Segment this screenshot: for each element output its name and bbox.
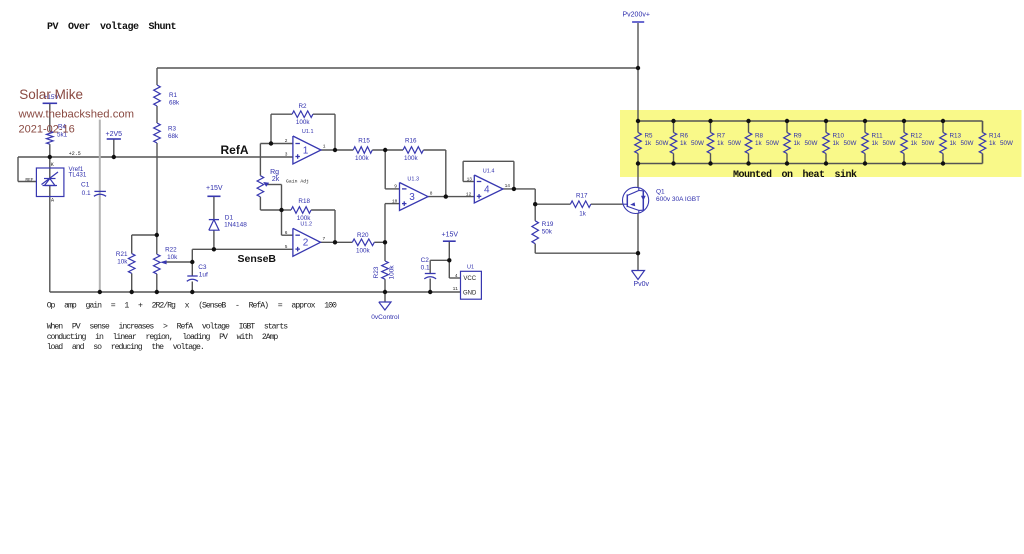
junction U1.4 output <box>512 187 516 191</box>
svg-text:1k: 1k <box>872 140 880 147</box>
resistor R10 1k 50W <box>823 133 830 154</box>
wire +15V stub to U1 VCC node <box>448 241 450 260</box>
wire R21 R22 top link <box>132 234 157 236</box>
svg-text:13: 13 <box>467 177 473 183</box>
wire R14 top lead <box>982 121 984 133</box>
wire U1.2 output to R20 <box>321 241 353 243</box>
op-amp U1.1 <box>293 136 321 164</box>
junction R17 R19 <box>533 202 537 206</box>
wire R10 bottom lead <box>825 154 827 164</box>
wire C2 top lead <box>429 260 431 273</box>
svg-text:100k: 100k <box>404 155 419 162</box>
svg-text:Op amp gain = 1 + 2R2/Rg x (Se: Op amp gain = 1 + 2R2/Rg x (SenseB - Ref… <box>47 301 337 311</box>
resistor R9 1k 50W <box>784 133 791 154</box>
junction R11 top <box>863 119 867 123</box>
svg-text:68k: 68k <box>169 100 180 107</box>
junction R10 bottom <box>824 161 828 165</box>
svg-text:R19: R19 <box>542 221 554 228</box>
svg-text:Pv0v: Pv0v <box>634 281 650 288</box>
wire main vertical PV bus upper <box>637 68 639 121</box>
resistor R15 100k <box>353 147 372 154</box>
svg-text:2: 2 <box>285 138 288 144</box>
capacitor C1 0.1 <box>94 190 106 192</box>
svg-text:0.1: 0.1 <box>82 190 91 197</box>
wire R4 bottom to RefA <box>49 144 51 157</box>
wire D1 anode to SenseB <box>213 230 215 249</box>
junction U1.1 output <box>333 148 337 152</box>
junction R12 top <box>902 119 906 123</box>
svg-text:100k: 100k <box>355 155 370 162</box>
svg-text:R3: R3 <box>168 126 177 133</box>
svg-text:10k: 10k <box>167 254 178 261</box>
power +2V5 <box>107 138 121 140</box>
wire SenseB horizontal <box>192 248 293 250</box>
wire R14 top lead <box>982 121 984 133</box>
wire R12 bottom lead <box>903 154 905 164</box>
svg-text:1uf: 1uf <box>199 272 208 279</box>
svg-text:R5: R5 <box>645 133 654 140</box>
junction R6 bottom <box>671 161 675 165</box>
wire U1.4 feedback stub <box>463 181 474 183</box>
svg-text:Mounted on heat sink: Mounted on heat sink <box>733 169 857 181</box>
svg-text:R7: R7 <box>717 133 726 140</box>
line C1 graphic vertical light gray <box>99 120 101 292</box>
svg-text:50W: 50W <box>1000 140 1013 147</box>
wire R2 left lead horizontal <box>271 113 292 115</box>
resistor R20 100k <box>352 239 374 246</box>
wire +2V5 stub <box>113 139 115 157</box>
svg-text:1k: 1k <box>989 140 997 147</box>
wire yellow bank bottom rail <box>638 163 983 165</box>
svg-text:VCC: VCC <box>463 276 476 282</box>
power +15V for U1 <box>443 240 456 242</box>
resistor R2 100k <box>292 111 313 118</box>
wire U1.4 feedback right vertical <box>513 161 515 189</box>
component U1 power box <box>461 271 482 299</box>
svg-text:+2V5: +2V5 <box>106 131 123 138</box>
wire R18 right lead <box>311 209 335 211</box>
svg-text:R17: R17 <box>576 192 588 199</box>
wire U1.3 inverting input horizontal <box>385 188 399 190</box>
junction R22 bottom <box>155 290 159 294</box>
svg-text:1: 1 <box>323 144 326 150</box>
wire bottom 0v rail <box>50 291 461 293</box>
svg-text:R2: R2 <box>299 103 308 110</box>
resistor R6 1k 50W <box>670 133 677 154</box>
resistor R3 68k <box>154 123 161 143</box>
wire U1.1 inverting input horizontal <box>260 143 293 145</box>
svg-text:50k: 50k <box>542 229 553 236</box>
svg-text:load and so reducing the volta: load and so reducing the voltage. <box>47 342 204 352</box>
svg-text:8: 8 <box>430 191 433 197</box>
svg-text:100k: 100k <box>389 265 396 280</box>
svg-text:50W: 50W <box>961 140 974 147</box>
resistor R18 100k <box>291 207 311 214</box>
svg-text:Pv200v+: Pv200v+ <box>623 12 650 19</box>
svg-text:REF: REF <box>25 177 33 183</box>
junction R21 R22 <box>155 233 159 237</box>
junction R13 bottom <box>941 161 945 165</box>
wire R5 top lead <box>637 121 639 133</box>
power +15V for D1 <box>207 195 220 197</box>
resistor R12 1k 50W <box>901 133 908 154</box>
component Vref1 TL431 <box>36 168 64 197</box>
wire U1.3 output <box>428 196 446 198</box>
svg-text:50W: 50W <box>691 140 704 147</box>
svg-text:When PV sense increases > RefA: When PV sense increases > RefA voltage I… <box>47 321 289 331</box>
junction R23 bottom <box>383 290 387 294</box>
wire R8 top lead <box>748 121 750 133</box>
wire R13 bottom lead <box>942 154 944 164</box>
svg-text:R21: R21 <box>116 251 128 258</box>
wire R21 top lead <box>131 235 133 254</box>
svg-text:RefA: RefA <box>221 143 249 157</box>
ground 0vControl <box>379 302 391 310</box>
junction R8 top <box>746 119 750 123</box>
wire R6 bottom lead <box>673 154 675 164</box>
junction R6 top <box>671 119 675 123</box>
resistor R4 5k1 <box>47 131 54 144</box>
junction Rg R18 <box>279 208 283 212</box>
resistor R11 1k 50W <box>862 133 869 154</box>
svg-text:5: 5 <box>285 244 288 250</box>
svg-text:A: A <box>51 197 54 203</box>
wire U1.4 output horizontal <box>503 188 535 190</box>
wire R3 bottom to R21 R22 junction <box>156 143 158 235</box>
svg-text:3: 3 <box>285 152 288 158</box>
resistor R14 1k 50W <box>979 133 986 154</box>
svg-text:C1: C1 <box>81 181 90 188</box>
svg-text:1N4148: 1N4148 <box>224 222 247 229</box>
resistor R19 50k <box>532 221 539 244</box>
wire R7 top lead <box>710 121 712 133</box>
svg-text:R1: R1 <box>169 92 178 99</box>
op-amp U1.3 <box>400 183 429 211</box>
svg-text:1: 1 <box>303 145 309 156</box>
wire C2 bottom lead <box>429 279 431 293</box>
wire R11 top lead <box>864 121 866 133</box>
wire R15 to R16 segment <box>372 149 403 151</box>
wire U1.3 noninverting input horizontal <box>385 203 400 205</box>
svg-text:1k: 1k <box>680 140 688 147</box>
resistor R5 1k 50W <box>635 133 642 154</box>
wire R9 top lead <box>786 121 788 133</box>
diode D1 1N4148 <box>209 219 219 221</box>
wire R16 right lead <box>423 149 445 151</box>
wire Rg bottom lead <box>259 197 261 210</box>
svg-text:C2: C2 <box>421 257 430 264</box>
wire R19 bottom lead <box>534 244 536 254</box>
svg-text:10k: 10k <box>117 259 128 266</box>
svg-text:3: 3 <box>409 192 415 203</box>
junction R21 bottom <box>130 290 134 294</box>
svg-text:R22: R22 <box>165 247 177 254</box>
wire emitter vertical from IGBT <box>637 213 639 253</box>
junction R13 top <box>941 119 945 123</box>
svg-text:R11: R11 <box>872 133 884 140</box>
svg-text:1k: 1k <box>794 140 802 147</box>
wire REF loop vertical <box>17 157 19 182</box>
svg-text:+15V: +15V <box>442 232 459 239</box>
svg-text:600v 30A IGBT: 600v 30A IGBT <box>656 196 700 203</box>
junction wiper C3 <box>190 260 194 264</box>
wire U1.3 output node to U1.4 noninverting input <box>446 196 475 198</box>
svg-text:7: 7 <box>323 236 326 242</box>
svg-text:+2.5: +2.5 <box>69 151 81 157</box>
wire between R1 and R3 <box>156 106 158 123</box>
svg-text:Solar Mike: Solar Mike <box>19 87 83 102</box>
wire R22 bottom lead <box>156 274 158 292</box>
wire R7 bottom lead <box>710 154 712 164</box>
junction R10 top <box>824 119 828 123</box>
svg-text:R13: R13 <box>950 133 962 140</box>
svg-text:R12: R12 <box>911 133 923 140</box>
svg-text:0vControl: 0vControl <box>371 314 399 321</box>
wire U1.4 output down to gate node <box>534 189 536 204</box>
wire +15V stub to D1 <box>213 196 215 219</box>
svg-text:U1: U1 <box>467 265 474 271</box>
wire R9 bottom lead <box>786 154 788 164</box>
wire Rg top lead <box>259 144 261 176</box>
svg-text:R6: R6 <box>680 133 689 140</box>
wire Rg wiper link <box>266 184 282 186</box>
wire R23 bottom lead <box>384 279 386 292</box>
wire R20 node down to R23 <box>384 242 386 261</box>
wire TL431 anode A to bottom rail <box>49 186 51 293</box>
wire R14 bottom lead <box>982 154 984 164</box>
resistor R16 100k <box>403 147 423 154</box>
wire 0vControl stub <box>384 292 386 302</box>
svg-text:14: 14 <box>505 183 511 189</box>
junction R2 inverting <box>269 141 273 145</box>
op-amp U1.2 <box>293 228 321 256</box>
wire PV200v+ stub vertical <box>637 22 639 68</box>
svg-text:R8: R8 <box>755 133 764 140</box>
svg-text:GND: GND <box>463 290 477 296</box>
svg-text:2: 2 <box>303 238 309 249</box>
wire U1.1 output to R15 <box>321 149 353 151</box>
wire R19 top lead <box>534 204 536 221</box>
wire R6 top lead <box>673 121 675 133</box>
heat-sink highlight region <box>620 110 1022 177</box>
svg-text:2k: 2k <box>272 176 280 183</box>
resistor R7 1k 50W <box>707 133 714 154</box>
svg-text:U1.4: U1.4 <box>483 169 495 175</box>
svg-text:PV Over voltage Shunt: PV Over voltage Shunt <box>47 21 177 33</box>
svg-text:1k: 1k <box>645 140 653 147</box>
capacitor C2 0.1 <box>425 273 436 275</box>
svg-text:50W: 50W <box>728 140 741 147</box>
wire VCC pin horizontal <box>449 277 460 279</box>
wire Rg bottom to R18 junction <box>260 209 281 211</box>
svg-text:SenseB: SenseB <box>238 253 277 265</box>
wire U1.4 feedback top <box>463 160 514 162</box>
junction R9 bottom <box>785 161 789 165</box>
wire R16 down to U1.3 output node <box>445 150 447 197</box>
junction +2V5 RefA <box>112 155 116 159</box>
svg-text:1k: 1k <box>911 140 919 147</box>
junction R11 bottom <box>863 161 867 165</box>
svg-text:1k: 1k <box>833 140 841 147</box>
wire R13 top lead <box>942 121 944 133</box>
resistor R8 1k 50W <box>745 133 752 154</box>
power +15V hidden behind SolarMike <box>43 102 58 104</box>
wire U1.2 inverting input horizontal <box>282 234 293 236</box>
wire R22 top lead <box>156 235 158 254</box>
svg-text:TL431: TL431 <box>69 171 87 178</box>
svg-text:0.1: 0.1 <box>421 265 430 272</box>
junction C1 bottom <box>98 290 102 294</box>
svg-text:U1.3: U1.3 <box>407 176 419 182</box>
svg-text:R10: R10 <box>833 133 845 140</box>
wire yellow bank top rail <box>638 120 983 122</box>
svg-text:+15V: +15V <box>206 185 223 192</box>
svg-text:R18: R18 <box>298 198 310 205</box>
junction D1 SenseB <box>212 247 216 251</box>
junction R5 bottom <box>636 161 640 165</box>
wire top rail PV200v+ horizontal <box>157 67 638 69</box>
junction R7 bottom <box>708 161 712 165</box>
svg-text:1k: 1k <box>717 140 725 147</box>
wire C3 bottom lead <box>191 282 193 293</box>
svg-text:68k: 68k <box>168 133 179 140</box>
wire TL431 cathode K <box>49 157 51 179</box>
junction R9 top <box>785 119 789 123</box>
wire U1.3 noninverting down to R20 node <box>384 204 386 243</box>
svg-text:6: 6 <box>285 230 288 236</box>
svg-text:Rg: Rg <box>270 169 279 176</box>
wire R2 left lead down <box>270 114 272 143</box>
svg-text:50W: 50W <box>844 140 857 147</box>
junction C2 bottom <box>428 290 432 294</box>
wire VCC node down <box>448 260 450 278</box>
resistor R21 10k <box>128 254 135 274</box>
capacitor C3 1uf <box>187 275 197 277</box>
wire R17 to IGBT gate <box>591 203 623 205</box>
svg-text:9: 9 <box>394 183 397 189</box>
svg-text:4: 4 <box>455 273 458 279</box>
wire R4 power stub <box>49 104 51 131</box>
junction R15 R16 <box>383 148 387 152</box>
svg-text:Q1: Q1 <box>656 189 665 196</box>
resistor R1 68k <box>154 85 161 106</box>
junction R7 top <box>708 119 712 123</box>
svg-text:C3: C3 <box>198 264 207 271</box>
junction +15V C2 <box>447 258 451 262</box>
svg-text:10: 10 <box>392 198 398 204</box>
svg-text:U1.1: U1.1 <box>302 129 314 135</box>
svg-text:50W: 50W <box>922 140 935 147</box>
wire collector vertical to IGBT <box>637 164 639 188</box>
wire R10 top lead <box>825 121 827 133</box>
svg-text:conducting in linear region, l: conducting in linear region, loading PV … <box>47 332 279 342</box>
svg-text:R15: R15 <box>358 138 370 145</box>
svg-text:50W: 50W <box>656 140 669 147</box>
svg-text:50W: 50W <box>766 140 779 147</box>
resistor R17 1k <box>570 201 590 208</box>
wire R15 R16 node down to U1.3 inverting input <box>384 150 386 189</box>
wire R1 R3 divider vertical <box>156 68 158 85</box>
junction U1.2 output <box>333 240 337 244</box>
wire R2 right lead horizontal <box>313 113 335 115</box>
wire R18 right down to U1.2 output <box>334 210 336 242</box>
svg-text:K: K <box>51 162 54 168</box>
junction emitter R19 <box>636 251 640 255</box>
wire R14 bottom lead <box>982 154 984 164</box>
junction R8 bottom <box>746 161 750 165</box>
wire R8 bottom lead <box>748 154 750 164</box>
wire R21 bottom lead <box>131 273 133 292</box>
op-amp U1.4 <box>474 175 503 203</box>
wire R12 top lead <box>903 121 905 133</box>
potentiometer R22 10k <box>154 254 161 274</box>
wire R11 bottom lead <box>864 154 866 164</box>
svg-text:2021-02-16: 2021-02-16 <box>19 124 75 136</box>
svg-text:100k: 100k <box>296 119 311 126</box>
svg-text:1k: 1k <box>755 140 763 147</box>
svg-text:1k: 1k <box>579 211 587 218</box>
svg-text:50W: 50W <box>805 140 818 147</box>
junction R20 R23 <box>383 240 387 244</box>
svg-text:R20: R20 <box>357 232 369 239</box>
svg-text:www.thebackshed.com: www.thebackshed.com <box>18 109 135 121</box>
wire gate node to R17 <box>535 203 570 205</box>
wire RefA horizontal <box>18 156 293 158</box>
svg-text:U1.2: U1.2 <box>300 222 312 228</box>
svg-text:1k: 1k <box>950 140 958 147</box>
wire PV0v stub <box>637 253 639 270</box>
ground Pv0v <box>632 271 645 280</box>
wire U1.4 feedback left vertical <box>462 161 464 181</box>
svg-text:11: 11 <box>453 286 459 292</box>
svg-text:12: 12 <box>466 191 472 197</box>
potentiometer Rg 2k <box>257 176 264 197</box>
wire R22 wiper to C3 node <box>167 261 193 263</box>
wire R18 junction down to U1.2 inverting input <box>281 210 283 235</box>
svg-text:100k: 100k <box>356 248 371 255</box>
svg-text:50W: 50W <box>883 140 896 147</box>
wire R5 bottom lead <box>637 154 639 164</box>
junction R12 bottom <box>902 161 906 165</box>
transistor Q1 IGBT <box>623 187 649 213</box>
junction U1.3 output <box>444 194 448 198</box>
wire wiper down to R18 node <box>281 185 283 211</box>
svg-text:R16: R16 <box>405 138 417 145</box>
svg-text:Gain Adj: Gain Adj <box>286 179 309 185</box>
power Pv200v+ <box>632 21 644 23</box>
junction R5 top <box>636 119 640 123</box>
junction C3 bottom <box>190 290 194 294</box>
svg-text:R9: R9 <box>794 133 803 140</box>
wire R19 bottom to emitter node <box>535 252 638 254</box>
svg-text:4: 4 <box>484 184 490 195</box>
svg-text:D1: D1 <box>225 214 234 221</box>
wire REF loop horizontal to TL431 <box>18 181 36 183</box>
wire SenseB vertical at C3 <box>191 249 193 276</box>
wire R2 right lead down to U1.1 output <box>334 114 336 150</box>
junction RefA R4 <box>48 155 52 159</box>
svg-text:R14: R14 <box>989 133 1001 140</box>
resistor R23 100k vertical <box>382 261 389 279</box>
junction PV200v+ tap <box>636 66 640 70</box>
wire C2 branch horizontal <box>430 259 449 261</box>
resistor R13 1k 50W <box>940 133 947 154</box>
wire R20 right lead <box>374 241 385 243</box>
svg-text:R23: R23 <box>373 266 380 278</box>
wire R18 left lead <box>282 209 292 211</box>
